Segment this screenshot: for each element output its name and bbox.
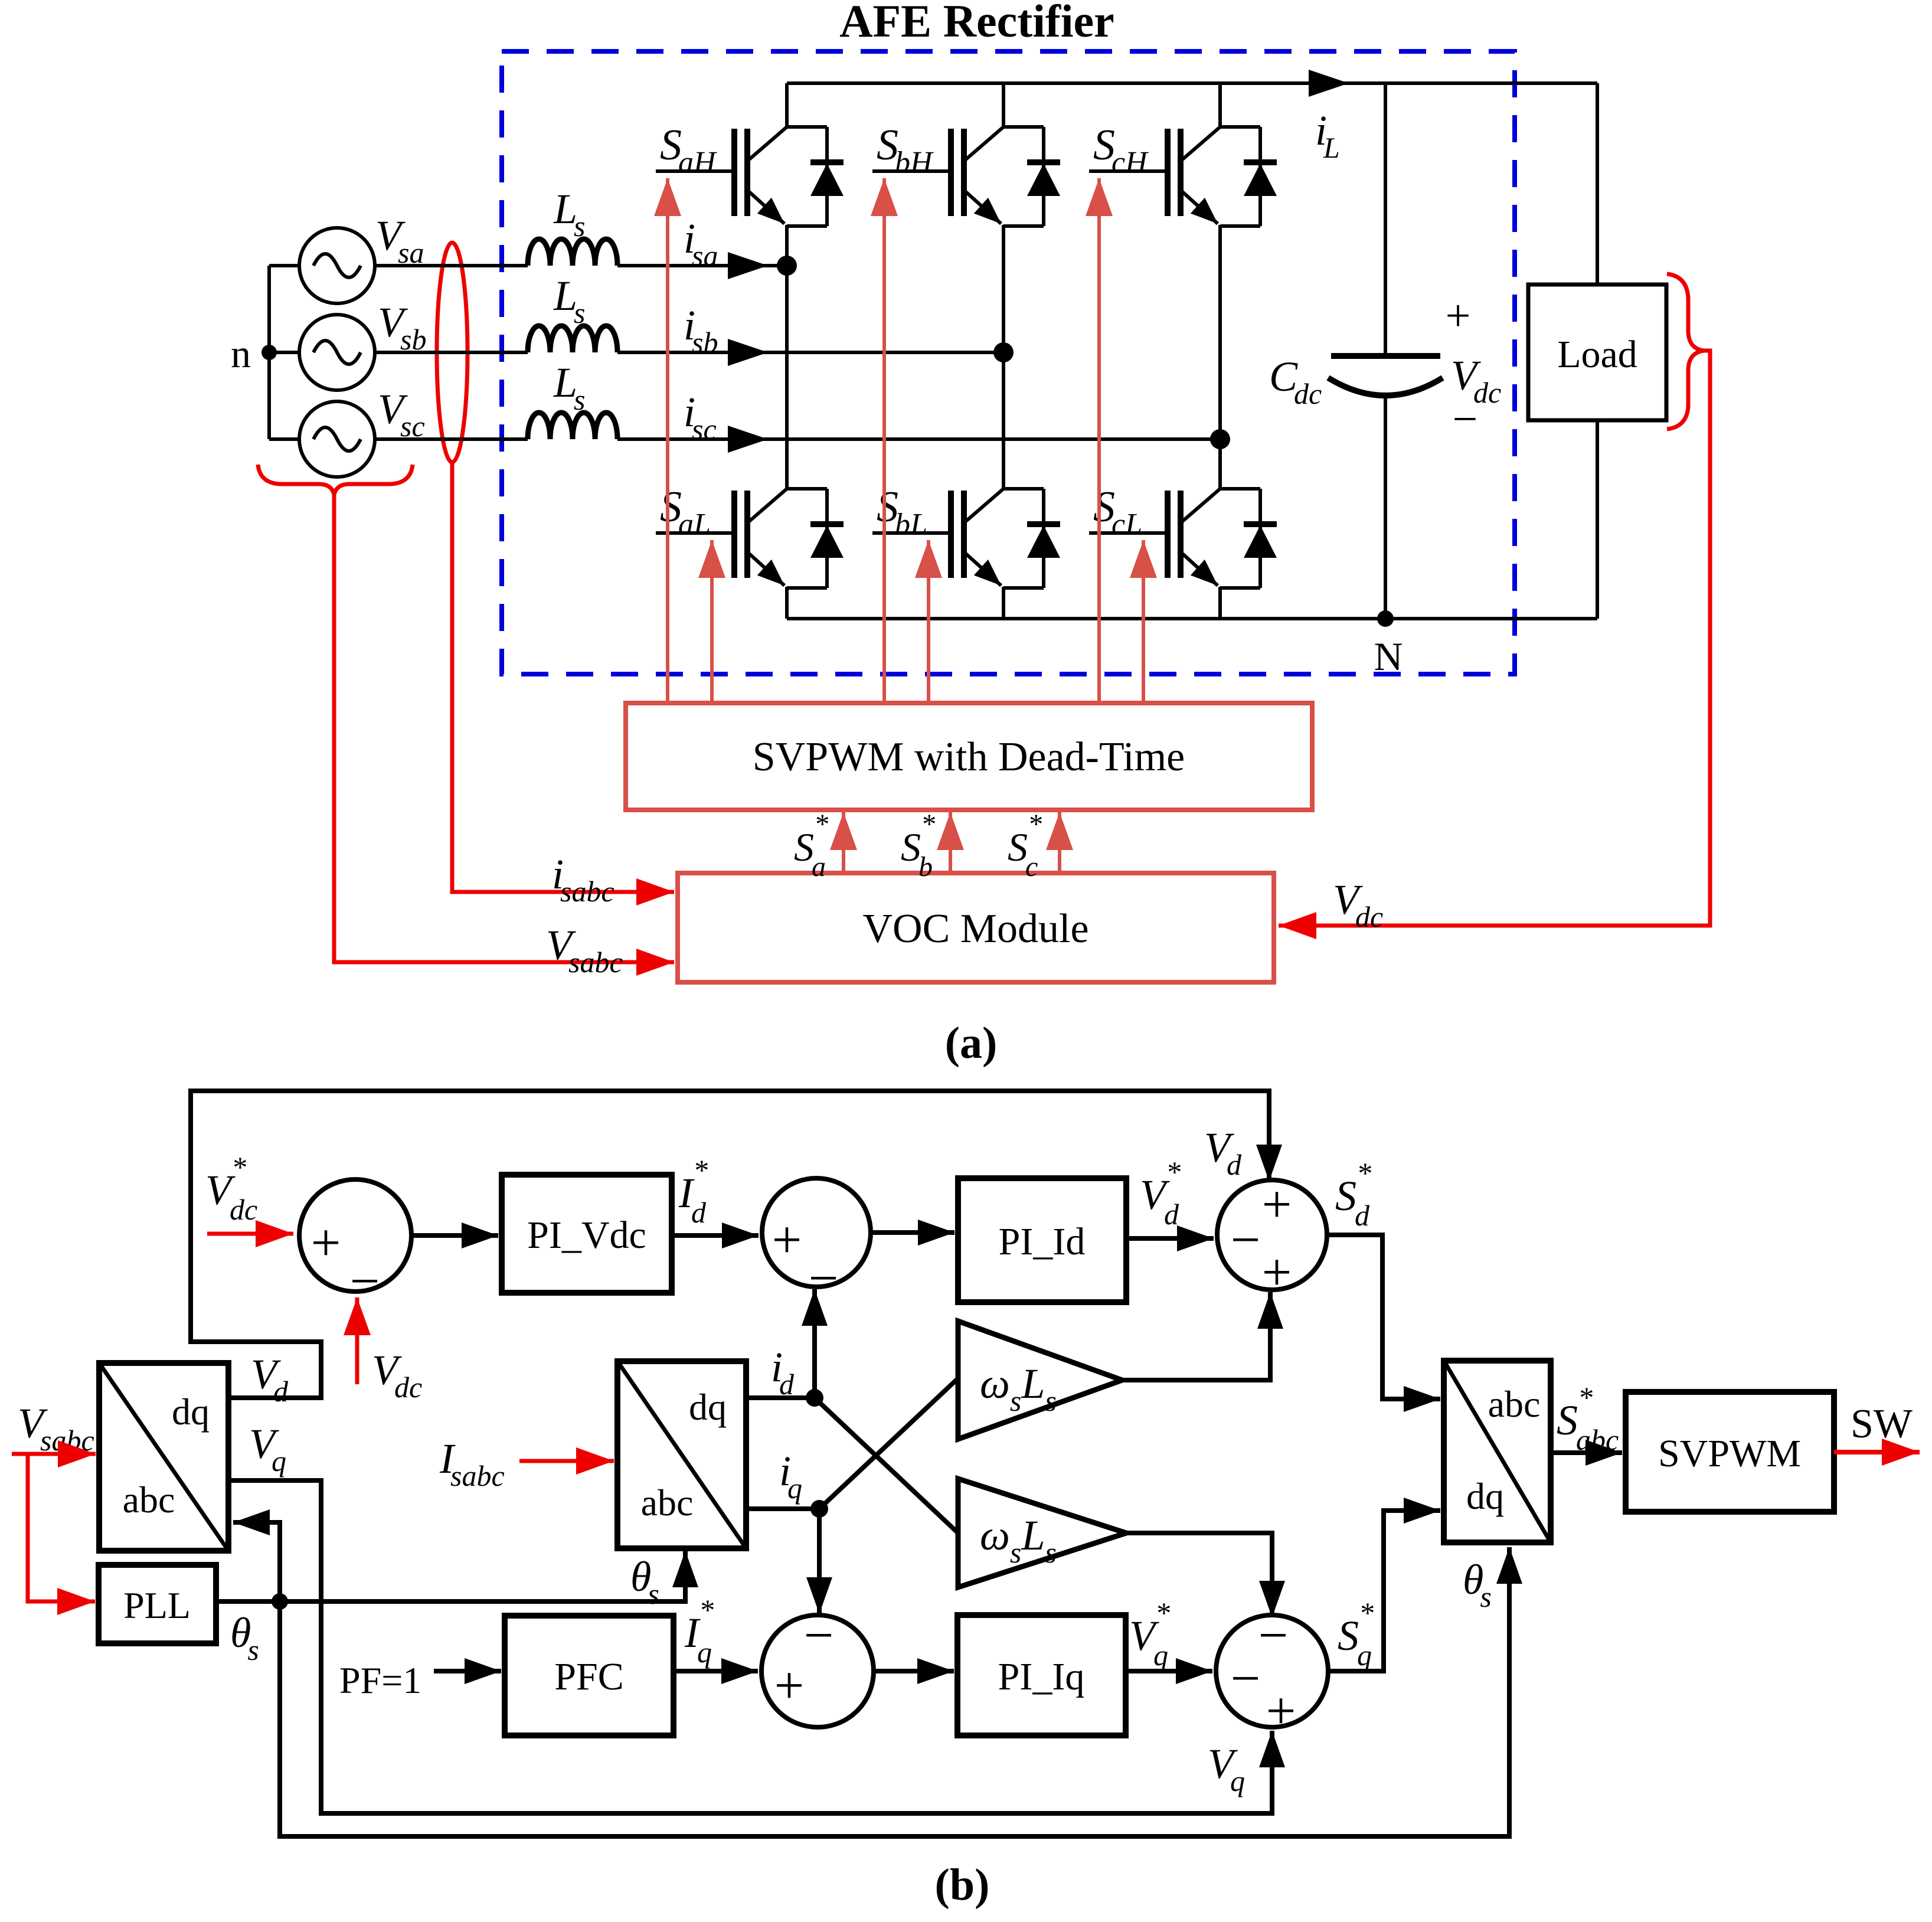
- svg-text:+: +: [774, 1656, 805, 1715]
- svg-text:SVPWM with Dead-Time: SVPWM with Dead-Time: [753, 734, 1185, 780]
- svg-text:PFC: PFC: [554, 1655, 623, 1698]
- svg-text:dq: dq: [172, 1391, 210, 1433]
- svg-text:+: +: [772, 1211, 802, 1269]
- svg-text:dq: dq: [689, 1386, 727, 1428]
- svg-text:+: +: [1262, 1175, 1292, 1234]
- svg-text:−: −: [804, 1606, 834, 1665]
- svg-text:+: +: [1266, 1682, 1296, 1740]
- svg-text:dq: dq: [1466, 1475, 1504, 1517]
- svg-text:abc: abc: [641, 1482, 694, 1524]
- svg-text:+: +: [1262, 1243, 1292, 1302]
- svg-text:PI_Iq: PI_Iq: [998, 1655, 1085, 1698]
- svg-text:−: −: [1231, 1211, 1261, 1269]
- svg-text:abc: abc: [123, 1479, 175, 1521]
- svg-text:+: +: [311, 1214, 341, 1272]
- svg-text:PI_Id: PI_Id: [999, 1220, 1086, 1263]
- svg-text:Load: Load: [1557, 333, 1637, 376]
- svg-text:PLL: PLL: [123, 1584, 191, 1626]
- svg-text:+: +: [1446, 291, 1471, 341]
- svg-text:N: N: [1374, 634, 1403, 679]
- svg-text:VOC Module: VOC Module: [862, 906, 1088, 952]
- svg-text:(b): (b): [935, 1860, 990, 1910]
- svg-text:SW: SW: [1851, 1401, 1913, 1447]
- svg-text:n: n: [231, 331, 251, 376]
- svg-text:−: −: [1258, 1606, 1289, 1665]
- svg-text:(a): (a): [945, 1018, 998, 1068]
- svg-text:−: −: [1231, 1649, 1261, 1708]
- svg-text:PI_Vdc: PI_Vdc: [527, 1214, 646, 1257]
- svg-text:SVPWM: SVPWM: [1658, 1432, 1801, 1475]
- svg-text:abc: abc: [1488, 1383, 1541, 1425]
- svg-text:PF=1: PF=1: [339, 1659, 421, 1701]
- svg-text:−: −: [350, 1252, 380, 1310]
- svg-text:AFE Rectifier: AFE Rectifier: [839, 0, 1114, 47]
